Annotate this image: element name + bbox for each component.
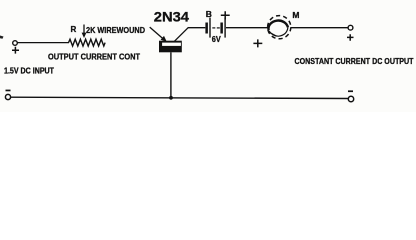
wire meter to output terminal: [291, 27, 348, 29]
svg-text:1.5V DC INPUT: 1.5V DC INPUT: [4, 66, 54, 75]
input terminal + (top-left open circle): [13, 41, 18, 46]
svg-text:CONSTANT CURRENT DC OUTPUT: CONSTANT CURRENT DC OUTPUT: [295, 56, 415, 66]
plus sign battery: [221, 11, 230, 19]
bottom rail wire: [11, 97, 349, 98]
wiper arrow onto resistor: [83, 25, 85, 34]
svg-text:M: M: [292, 10, 299, 20]
svg-text:R: R: [71, 25, 77, 34]
bottom-left terminal (open circle): [5, 94, 10, 99]
svg-text:OUTPUT CURRENT CONT: OUTPUT CURRENT CONT: [48, 52, 141, 62]
svg-text:2N34: 2N34: [154, 9, 190, 24]
minus sign bottom-left: [6, 90, 11, 92]
svg-text:6V: 6V: [212, 34, 221, 44]
transistor Q1 emitter lead (diagonal with arrow): [150, 27, 163, 38]
svg-text:B: B: [206, 9, 212, 19]
wire top-left (input + to resistor): [17, 42, 70, 44]
plus sign output: [347, 34, 354, 40]
meter glyph (arc + needle): [268, 21, 287, 31]
edge artifact mark left: [0, 36, 4, 39]
plus sign at + input: [12, 47, 19, 54]
resistor R (zigzag): [69, 39, 106, 46]
plus sign meter: [253, 39, 262, 47]
minus sign bottom-right: [348, 90, 353, 92]
transistor Q1 collector lead (diagonal): [175, 27, 189, 41]
svg-text:2K WIREWOUND: 2K WIREWOUND: [86, 25, 145, 35]
wire battery to meter: [226, 27, 268, 29]
junction dot (base lead to rail): [169, 96, 173, 100]
transistor Q1 base block (2N34 body): [159, 41, 182, 53]
meter M (dashed circle): [268, 16, 291, 39]
output terminal + (top-right open circle): [348, 25, 353, 30]
bottom-right terminal (open circle): [348, 96, 353, 101]
transistor base lead down to rail: [170, 52, 172, 98]
wire collector to battery: [188, 27, 205, 29]
battery B (two cells + dashes): [205, 23, 208, 34]
